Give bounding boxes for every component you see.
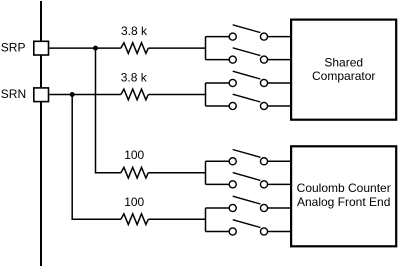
wire: R1 to switch split — [148, 47, 206, 49]
terminal SRP — [34, 41, 49, 55]
switch S7 — [229, 196, 291, 211]
svg-text:Comparator: Comparator — [312, 69, 375, 83]
wire: stub to S2 — [206, 59, 230, 61]
wire: split vertical rows 3-4 — [205, 83, 207, 106]
wire: SRN to R2 — [49, 94, 121, 96]
resistor R2 3.8k — [121, 89, 148, 100]
wire: R4 to switch split — [148, 218, 206, 220]
wire: SRN tap drop — [72, 95, 121, 220]
wire: stub to S6 — [206, 183, 230, 185]
wire: SRP to R1 — [49, 47, 121, 49]
switch S8 — [229, 220, 291, 235]
terminal SRN — [34, 88, 49, 102]
switch S1 — [229, 25, 291, 40]
wire: stub to S4 — [206, 105, 230, 107]
svg-text:Analog Front End: Analog Front End — [297, 195, 390, 209]
svg-text:Coulomb Counter: Coulomb Counter — [297, 181, 391, 195]
node: SRN tap junction — [70, 92, 75, 97]
switch S6 — [229, 173, 291, 188]
block U2 Coulomb Counter Analog Front End — [291, 146, 396, 246]
wire: stub to S3 — [206, 82, 230, 84]
svg-text:SRP: SRP — [1, 40, 26, 54]
wire: stub to S8 — [206, 231, 230, 233]
switch S4 — [229, 94, 291, 109]
wire: stub to S5 — [206, 160, 230, 162]
wire: R2 to switch split — [148, 94, 206, 96]
resistor R3 100 — [121, 167, 148, 178]
switch S2 — [229, 48, 291, 63]
wire: SRP tap drop — [96, 48, 121, 173]
svg-text:Shared: Shared — [324, 55, 363, 69]
svg-text:100: 100 — [124, 148, 144, 162]
svg-text:3.8 k: 3.8 k — [121, 71, 148, 85]
resistor R1 3.8k — [121, 43, 148, 54]
block U1 Shared Comparator — [291, 20, 396, 120]
switch S3 — [229, 71, 291, 86]
wire: split vertical rows 7-8 — [205, 208, 207, 232]
wire: split vertical rows 1-2 — [205, 37, 207, 60]
svg-text:3.8 k: 3.8 k — [121, 24, 148, 38]
node: SRP tap junction — [93, 46, 98, 51]
svg-text:100: 100 — [124, 195, 144, 209]
wire: R3 to switch split — [148, 172, 206, 174]
resistor R4 100 — [121, 214, 148, 225]
switch S5 — [229, 150, 291, 165]
svg-text:SRN: SRN — [1, 87, 26, 101]
wire: split vertical rows 5-6 — [205, 161, 207, 184]
wire: stub to S1 — [206, 36, 230, 38]
wire: main vertical sense trace — [40, 1, 42, 266]
wire: stub to S7 — [206, 207, 230, 209]
